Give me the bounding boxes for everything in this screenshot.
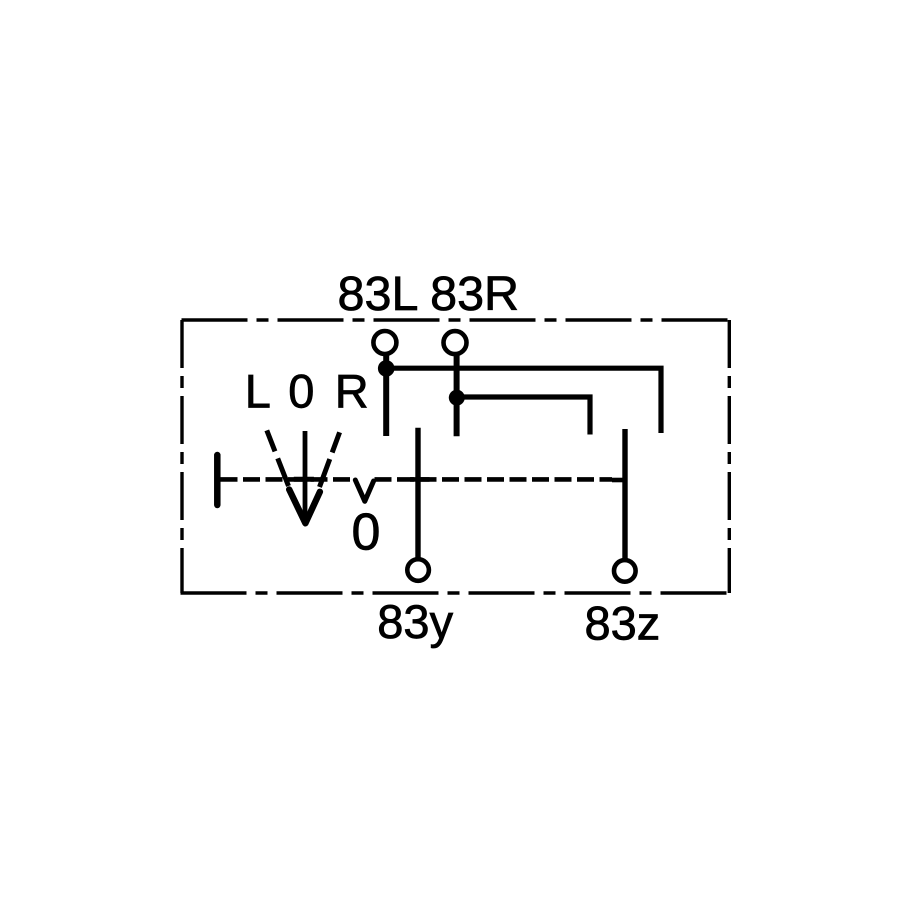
terminal circle 83L <box>373 331 396 354</box>
detent notch v <box>355 480 373 501</box>
lever arrowhead V <box>289 490 320 524</box>
wire stem 83R <box>454 354 460 436</box>
wire A from 83L junction to right contact <box>386 368 661 433</box>
contact stem 83z <box>622 429 627 559</box>
svg-text:83L 83R: 83L 83R <box>338 267 520 321</box>
enclosure dashed border bottom <box>181 591 731 594</box>
contact stem 83y <box>415 428 420 558</box>
svg-text:83z: 83z <box>585 596 661 649</box>
svg-text:R: R <box>335 365 369 418</box>
position R dashed diagonal <box>320 432 340 487</box>
terminal circle 83z <box>614 560 636 582</box>
mechanical link dashed line (left part) <box>221 477 356 482</box>
enclosure dashed border left <box>180 320 183 593</box>
mechanical link tick at 83y stem crossing <box>410 477 430 482</box>
lever crossbar on mechanical link <box>294 477 314 482</box>
enclosure dashed border top <box>182 318 731 321</box>
left terminal bar of mechanical link <box>214 455 221 505</box>
terminal circle 83R <box>444 331 467 354</box>
junction dot on 83R stem <box>449 390 465 406</box>
junction dot on 83L stem <box>378 360 395 377</box>
mechanical link end tick at 83z stem <box>612 478 626 483</box>
svg-text:0: 0 <box>352 504 381 562</box>
mechanical link dashed line (right part) <box>375 477 613 482</box>
position L dashed diagonal <box>267 430 289 486</box>
wire B from 83R junction to middle contact <box>457 397 590 435</box>
terminal circle 83y <box>407 559 429 581</box>
svg-text:L: L <box>245 365 271 418</box>
svg-text:83y: 83y <box>377 595 453 648</box>
wire stem 83L <box>383 354 389 436</box>
svg-text:0: 0 <box>288 365 314 418</box>
lever arrow shaft <box>303 431 308 517</box>
enclosure dashed border right <box>728 320 731 593</box>
